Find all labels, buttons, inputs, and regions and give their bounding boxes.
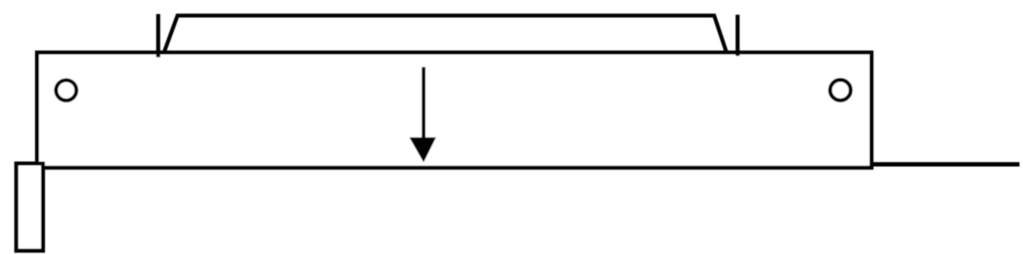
load arrow head <box>409 137 436 162</box>
left support block <box>16 164 43 251</box>
right hole <box>830 80 851 101</box>
left hole <box>56 80 76 100</box>
right tick <box>736 15 740 56</box>
beam body rectangle <box>37 53 872 168</box>
load arrow shaft <box>422 67 426 142</box>
left tick <box>156 14 160 57</box>
baseline extension <box>872 162 1020 166</box>
trapezoid pad <box>164 16 727 54</box>
